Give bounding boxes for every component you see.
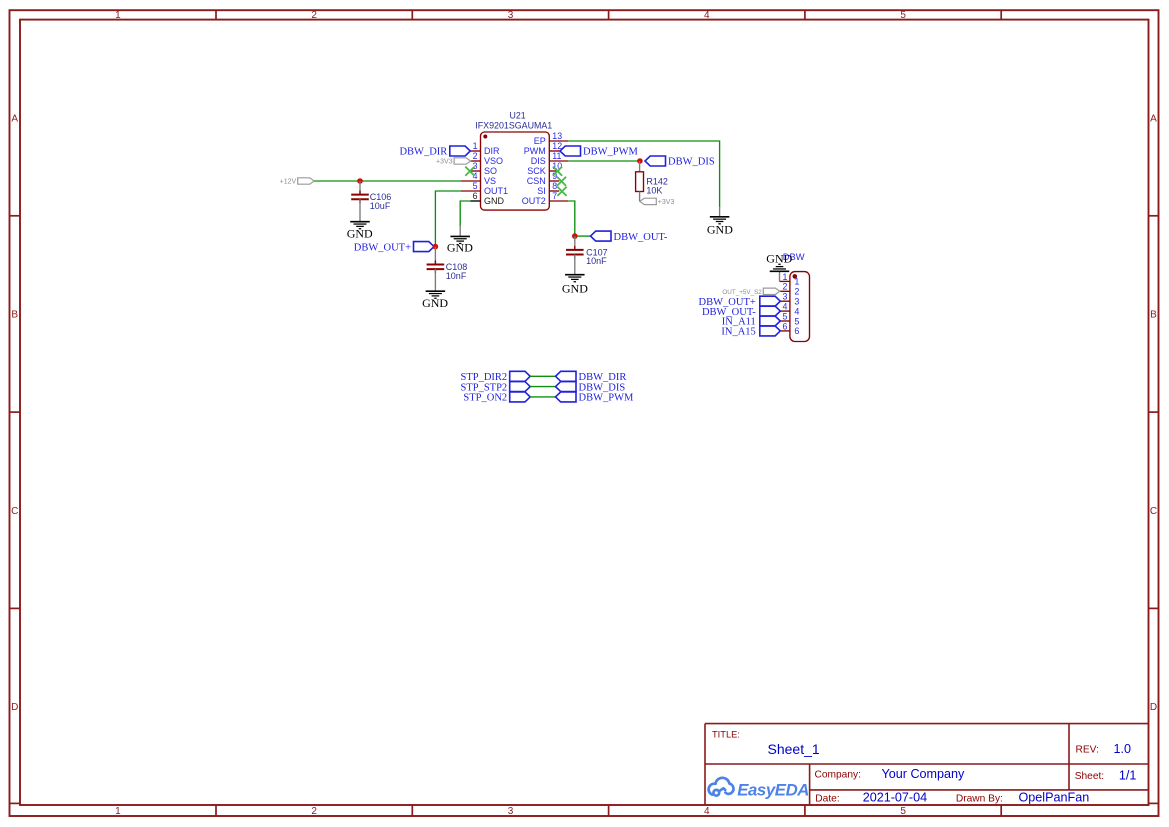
svg-text:2: 2	[311, 10, 317, 21]
svg-text:A: A	[11, 113, 18, 124]
svg-text:10nF: 10nF	[446, 271, 467, 281]
svg-text:OUT1: OUT1	[484, 186, 508, 196]
svg-text:TITLE:: TITLE:	[712, 730, 740, 740]
svg-text:+3V3: +3V3	[658, 199, 675, 206]
svg-text:VSO: VSO	[484, 156, 503, 166]
svg-text:1: 1	[473, 141, 478, 151]
svg-text:C: C	[1150, 506, 1157, 517]
svg-text:4: 4	[782, 302, 787, 312]
svg-text:GND: GND	[484, 196, 505, 206]
svg-text:7: 7	[552, 191, 557, 201]
svg-text:B: B	[1150, 310, 1157, 321]
svg-text:IN_A15: IN_A15	[721, 327, 755, 338]
svg-text:1: 1	[782, 272, 787, 282]
svg-text:Company:: Company:	[815, 769, 861, 780]
svg-text:B: B	[11, 310, 18, 321]
svg-text:A: A	[1150, 113, 1157, 124]
svg-text:4: 4	[794, 306, 799, 316]
svg-text:2: 2	[311, 806, 317, 817]
svg-text:3: 3	[508, 806, 514, 817]
svg-text:DIR: DIR	[484, 146, 500, 156]
svg-text:3: 3	[473, 161, 478, 171]
svg-text:10nF: 10nF	[586, 256, 607, 266]
svg-text:VS: VS	[484, 176, 496, 186]
svg-text:5: 5	[900, 806, 906, 817]
svg-text:DBW_PWM: DBW_PWM	[579, 393, 634, 404]
svg-text:STP_ON2: STP_ON2	[463, 393, 507, 404]
svg-text:4: 4	[704, 806, 710, 817]
svg-text:5: 5	[794, 316, 799, 326]
svg-text:DBW_DIS: DBW_DIS	[668, 157, 715, 168]
svg-text:4: 4	[704, 10, 710, 21]
svg-text:DBW_OUT+: DBW_OUT+	[354, 242, 411, 253]
svg-text:C: C	[11, 506, 18, 517]
svg-text:2021-07-04: 2021-07-04	[863, 791, 927, 805]
svg-text:GND: GND	[766, 252, 792, 266]
svg-text:DBW_OUT-: DBW_OUT-	[614, 232, 668, 243]
svg-text:IFX9201SGAUMA1: IFX9201SGAUMA1	[475, 121, 552, 131]
svg-text:GND: GND	[347, 227, 373, 241]
svg-text:+3V3: +3V3	[436, 159, 453, 166]
svg-text:10: 10	[552, 161, 562, 171]
svg-text:Your Company: Your Company	[882, 767, 966, 781]
svg-text:U21: U21	[510, 111, 526, 121]
svg-text:1.0: 1.0	[1114, 742, 1132, 756]
svg-text:1: 1	[794, 277, 799, 287]
svg-text:2: 2	[794, 287, 799, 297]
svg-text:5: 5	[473, 181, 478, 191]
svg-text:REV:: REV:	[1076, 745, 1099, 756]
svg-text:3: 3	[782, 292, 787, 302]
svg-text:OpelPanFan: OpelPanFan	[1019, 791, 1090, 805]
svg-text:5: 5	[782, 311, 787, 321]
svg-text:3: 3	[794, 297, 799, 307]
svg-text:Drawn By:: Drawn By:	[956, 793, 1003, 804]
svg-text:+12V: +12V	[280, 179, 297, 186]
svg-text:GND: GND	[447, 240, 473, 254]
svg-text:D: D	[11, 702, 18, 713]
svg-text:CSN: CSN	[527, 176, 546, 186]
svg-text:DBW_PWM: DBW_PWM	[583, 147, 638, 158]
svg-text:6: 6	[794, 326, 799, 336]
svg-text:Sheet_1: Sheet_1	[768, 741, 820, 757]
svg-text:8: 8	[552, 181, 557, 191]
svg-text:5: 5	[900, 10, 906, 21]
svg-text:DIS: DIS	[531, 156, 546, 166]
svg-text:GND: GND	[422, 296, 448, 310]
svg-text:OUT2: OUT2	[522, 196, 546, 206]
svg-text:3: 3	[508, 10, 514, 21]
svg-text:Sheet:: Sheet:	[1075, 771, 1104, 782]
svg-text:2: 2	[473, 151, 478, 161]
svg-text:OUT_+5V_S2: OUT_+5V_S2	[722, 289, 762, 296]
svg-text:6: 6	[782, 321, 787, 331]
svg-text:6: 6	[473, 191, 478, 201]
svg-text:10uF: 10uF	[370, 201, 391, 211]
svg-text:Date:: Date:	[815, 793, 839, 804]
svg-text:EP: EP	[534, 136, 546, 146]
svg-text:1/1: 1/1	[1119, 768, 1137, 782]
svg-text:11: 11	[552, 151, 561, 161]
svg-text:1: 1	[115, 806, 121, 817]
svg-text:13: 13	[552, 131, 562, 141]
svg-text:DBW_DIR: DBW_DIR	[399, 147, 447, 158]
svg-text:PWM: PWM	[524, 146, 546, 156]
svg-text:1: 1	[115, 10, 121, 21]
svg-text:SO: SO	[484, 166, 497, 176]
svg-text:EasyEDA: EasyEDA	[737, 781, 809, 800]
svg-text:2: 2	[782, 282, 787, 292]
svg-text:D: D	[1150, 702, 1157, 713]
svg-text:GND: GND	[707, 222, 733, 236]
svg-text:GND: GND	[562, 281, 588, 295]
svg-text:SI: SI	[537, 186, 546, 196]
svg-text:SCK: SCK	[527, 166, 546, 176]
svg-text:10K: 10K	[646, 185, 662, 195]
